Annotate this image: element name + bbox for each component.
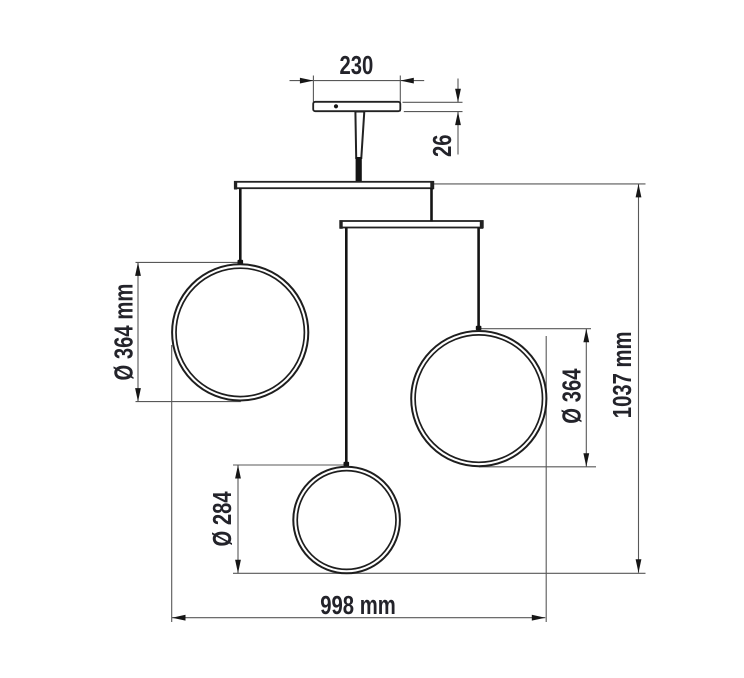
svg-text:Ø 364 mm: Ø 364 mm	[109, 284, 138, 381]
svg-text:230: 230	[339, 51, 373, 80]
svg-text:Ø 284: Ø 284	[208, 491, 237, 546]
svg-text:26: 26	[428, 134, 457, 157]
svg-text:998 mm: 998 mm	[320, 591, 395, 620]
svg-text:Ø 364: Ø 364	[557, 368, 586, 423]
svg-text:1037 mm: 1037 mm	[608, 331, 637, 418]
